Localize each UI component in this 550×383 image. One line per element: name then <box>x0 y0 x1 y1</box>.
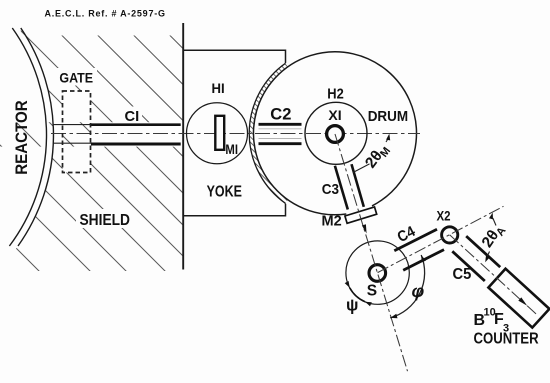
BF3 counter tube <box>488 269 549 328</box>
collimator C2 walls <box>259 123 302 126</box>
collimator C2 inner thin walls <box>259 128 302 130</box>
S outer circle (sample table) <box>346 241 409 304</box>
X1 axis ring <box>327 126 344 143</box>
svg-text:SHIELD: SHIELD <box>80 212 130 229</box>
drum outline <box>253 52 416 215</box>
svg-text:M2: M2 <box>322 213 342 229</box>
beam direction arrow below M2 <box>362 224 367 233</box>
S axis ring <box>369 265 386 282</box>
svg-text:DRUM: DRUM <box>368 108 408 125</box>
M1 crystal <box>215 116 224 150</box>
collimator C5 walls <box>466 236 500 267</box>
reactor wall arcs <box>9 28 46 246</box>
2thetaA leader+arrow to extension line <box>493 218 496 226</box>
svg-text:A.E.C.L. Ref. # A-2597-G: A.E.C.L. Ref. # A-2597-G <box>45 9 166 19</box>
collimator C3 walls <box>335 166 348 210</box>
gate (dashed) <box>63 91 91 173</box>
yoke outline <box>183 50 285 216</box>
2thetaM label (rotated) <box>362 141 393 173</box>
svg-text:ψ: ψ <box>346 297 358 315</box>
2thetaM leader to C3 <box>353 164 370 173</box>
collimator C1 walls <box>91 123 181 126</box>
H1 circle in yoke <box>187 103 248 164</box>
counter direction arrow <box>518 297 527 305</box>
shield right edge vertical line <box>182 23 184 270</box>
B10F3 COUNTER label <box>474 307 540 348</box>
shield hatching <box>0 20 420 285</box>
svg-text:YOKE: YOKE <box>207 183 242 201</box>
psi angle arc <box>350 288 365 302</box>
H2 circle in drum <box>305 102 367 164</box>
2thetaA label (rotated) <box>479 221 509 252</box>
svg-text:C2: C2 <box>270 105 291 123</box>
svg-text:COUNTER: COUNTER <box>474 330 540 347</box>
svg-text:MI: MI <box>225 141 238 157</box>
svg-text:C3: C3 <box>322 181 339 198</box>
phi arc arrowheads <box>421 255 426 262</box>
svg-text:φ: φ <box>412 281 425 301</box>
2thetaM leader+arrow to beam axis <box>386 137 389 142</box>
2thetaA leader to C5 axis <box>486 252 489 259</box>
phi angle arc <box>390 255 424 318</box>
collimator C4 walls <box>394 229 437 251</box>
svg-text:CI: CI <box>125 109 140 125</box>
svg-text:H2: H2 <box>327 84 344 101</box>
C5/counter axis dash line <box>450 235 537 315</box>
beam channel thin walls through shield <box>53 124 91 126</box>
bearing gap band between drum and yoke (hatched) <box>249 63 288 203</box>
C3/sample axis dash line X1->below S <box>335 134 408 371</box>
svg-text:XI: XI <box>328 107 341 123</box>
svg-text:HI: HI <box>212 81 225 96</box>
svg-text:REACTOR: REACTOR <box>12 100 31 175</box>
svg-text:GATE: GATE <box>59 70 93 86</box>
X2 axis ring <box>442 227 458 243</box>
svg-text:C5: C5 <box>453 266 472 283</box>
M2 crystal <box>345 207 377 223</box>
S->X2 axis dash line extended <box>378 206 504 272</box>
svg-text:X2: X2 <box>437 207 451 223</box>
svg-text:S: S <box>367 282 377 299</box>
main horizontal beam axis (dash-dot) <box>51 133 420 135</box>
drum body (white) <box>249 48 421 220</box>
